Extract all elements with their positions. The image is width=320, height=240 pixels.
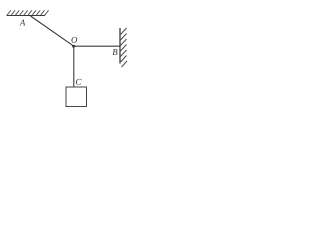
rope AO: [31, 16, 74, 46]
rope OB: [74, 45, 120, 47]
label O: [71, 37, 77, 43]
block C: [66, 87, 87, 107]
node O: [72, 45, 75, 48]
ceiling hatching: [7, 10, 49, 15]
wall line: [119, 28, 121, 64]
label B: [112, 49, 117, 55]
rope OC: [73, 46, 75, 87]
label C: [76, 79, 81, 85]
label A: [19, 20, 25, 26]
wall hatching: [121, 28, 128, 67]
ceiling line: [7, 15, 46, 17]
